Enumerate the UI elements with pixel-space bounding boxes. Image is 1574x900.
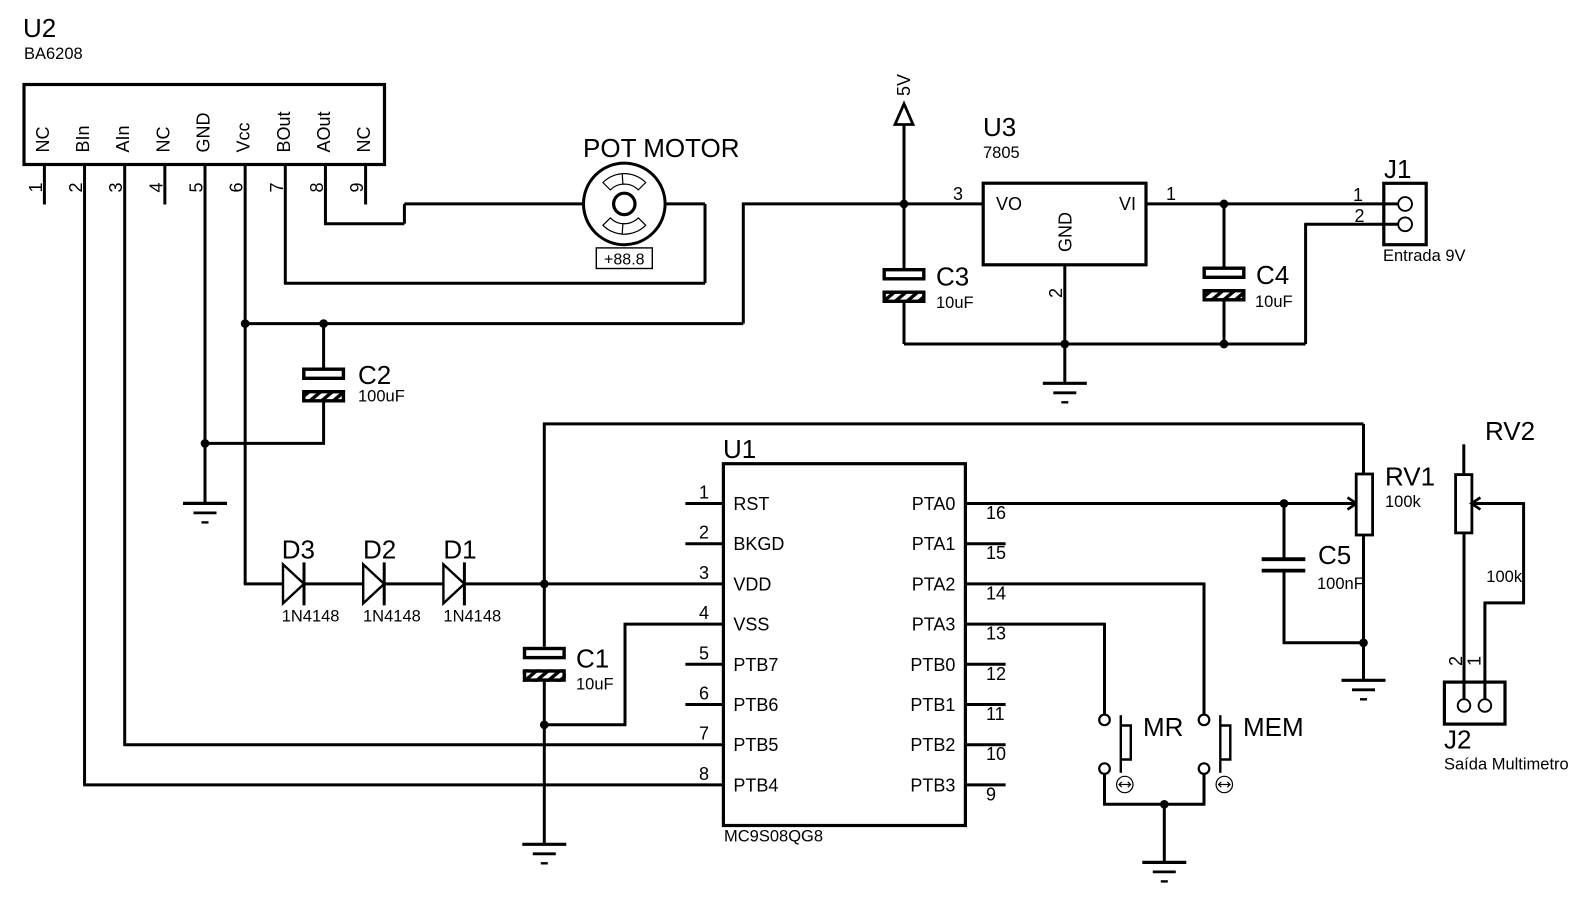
- svg-text:1N4148: 1N4148: [282, 608, 340, 626]
- svg-text:D1: D1: [443, 535, 476, 565]
- wire buttons common to ground: [1103, 804, 1205, 862]
- svg-text:J2: J2: [1444, 725, 1471, 755]
- diode D3: [283, 562, 304, 605]
- ground rail under U3: [904, 343, 1306, 346]
- svg-text:C5: C5: [1318, 540, 1351, 570]
- U1 left pin number 6: [699, 684, 709, 704]
- svg-text:VSS: VSS: [733, 615, 769, 635]
- svg-text:5: 5: [699, 643, 709, 663]
- U3 pin label VO: [996, 194, 1022, 214]
- IC U1 MC9S08QG8 body: [723, 464, 965, 826]
- svg-text:100uF: 100uF: [358, 388, 405, 406]
- motor display box +88.8: [596, 248, 652, 269]
- svg-text:1: 1: [1166, 184, 1176, 204]
- U1 left pin label PTB6: [733, 695, 778, 715]
- U1 right pin number 16: [986, 503, 1006, 523]
- diode D1: [443, 562, 464, 605]
- U2 pin number 8: [307, 182, 327, 192]
- svg-text:2: 2: [1354, 206, 1364, 226]
- wire U3 GND down: [1063, 265, 1066, 344]
- svg-text:1N4148: 1N4148: [443, 608, 501, 626]
- svg-text:Vcc: Vcc: [234, 122, 254, 152]
- node buttons ground junction: [1160, 800, 1169, 809]
- svg-text:VI: VI: [1119, 194, 1136, 214]
- svg-text:PTB7: PTB7: [733, 655, 778, 675]
- label BA6208: [24, 45, 83, 63]
- U2 pin label NC (pin 4): [153, 127, 173, 153]
- svg-text:PTB5: PTB5: [733, 735, 778, 755]
- svg-text:PTB4: PTB4: [733, 775, 778, 795]
- svg-text:10uF: 10uF: [936, 294, 974, 312]
- U1 right pin label PTA3: [912, 615, 956, 635]
- capacitor C2: [302, 369, 345, 402]
- label POT MOTOR: [583, 133, 740, 163]
- IC U2 BA6208 body: [24, 85, 385, 165]
- svg-text:+88.8: +88.8: [604, 252, 645, 269]
- U1 left pin label PTB7: [733, 655, 778, 675]
- power flag 5V: [894, 74, 914, 204]
- label 100uF: [358, 388, 405, 406]
- node C2 top junction: [319, 319, 328, 328]
- svg-text:PTA0: PTA0: [912, 494, 956, 514]
- label C3: [936, 262, 969, 292]
- node U3 GND junction: [1060, 340, 1069, 349]
- svg-text:MC9S08QG8: MC9S08QG8: [724, 828, 823, 846]
- wire VDD to C1: [543, 584, 546, 647]
- J1 pin 1 circle: [1398, 197, 1412, 211]
- U2 pin label NC (pin 9): [354, 127, 374, 153]
- label C1 10uF: [576, 676, 614, 694]
- U1 left pin number 2: [699, 523, 709, 543]
- label C5 100nF: [1317, 575, 1364, 593]
- U1 right pin label PTB3: [910, 775, 955, 795]
- svg-text:PTA1: PTA1: [912, 534, 956, 554]
- node Vcc/+5V rail junction: [241, 319, 250, 328]
- label D3 1N4148: [282, 608, 340, 626]
- svg-text:NC: NC: [354, 127, 374, 153]
- svg-text:Saída Multimetro: Saída Multimetro: [1444, 756, 1569, 774]
- U2 pin number 2: [66, 182, 86, 192]
- svg-text:6: 6: [699, 684, 709, 704]
- wire C2 bottom to GND node: [205, 403, 325, 444]
- label MC9S08QG8: [724, 828, 823, 846]
- U1 right pin label PTB2: [910, 735, 955, 755]
- svg-text:3: 3: [953, 184, 963, 204]
- svg-text:BKGD: BKGD: [733, 534, 784, 554]
- RV1 wiper arrow: [1348, 498, 1358, 510]
- svg-text:12: 12: [986, 664, 1006, 684]
- svg-text:16: 16: [986, 503, 1006, 523]
- J1 pin number 1: [1353, 185, 1363, 205]
- svg-text:MEM: MEM: [1243, 712, 1304, 742]
- wire C5 top: [1283, 504, 1286, 560]
- svg-text:VO: VO: [996, 194, 1022, 214]
- label Entrada 9V: [1383, 247, 1466, 265]
- motor top brush arc: [603, 174, 646, 190]
- svg-text:AIn: AIn: [113, 125, 133, 152]
- wire D3-D2: [304, 582, 363, 585]
- U1 right pin number 12: [986, 664, 1006, 684]
- regulator U3 body: [983, 183, 1146, 265]
- node C4 bottom junction: [1220, 340, 1229, 349]
- U2 pin label BIn (pin 2): [73, 125, 93, 152]
- svg-text:8: 8: [699, 764, 709, 784]
- label 7805: [983, 144, 1020, 162]
- label J2: [1444, 725, 1471, 755]
- U1 right pin number 10: [986, 744, 1006, 764]
- label C4 10uF: [1255, 293, 1293, 311]
- svg-text:7805: 7805: [983, 144, 1020, 162]
- label U1: [723, 434, 756, 464]
- U1 pin 10 stub: [965, 743, 1005, 746]
- U1 pin 12 stub: [965, 663, 1005, 666]
- U1 right pin label PTA1: [912, 534, 956, 554]
- svg-text:NC: NC: [33, 127, 53, 153]
- label C2: [358, 360, 391, 390]
- U1 left pin number 8: [699, 764, 709, 784]
- U1 right pin label PTA2: [912, 574, 956, 594]
- U1 right pin number 9: [986, 784, 996, 804]
- U2 pin number 6: [227, 182, 247, 192]
- U3 pin number 2: [1046, 288, 1066, 298]
- svg-text:BOut: BOut: [274, 111, 294, 152]
- U2 pin label BOut (pin 7): [274, 111, 294, 152]
- svg-text:15: 15: [986, 543, 1006, 563]
- U1 left pin number 1: [699, 483, 709, 503]
- svg-text:PTB0: PTB0: [910, 655, 955, 675]
- U1 left pin label VSS: [733, 615, 769, 635]
- svg-text:4: 4: [699, 603, 709, 623]
- svg-text:POT MOTOR: POT MOTOR: [583, 133, 740, 163]
- capacitor C4: [1203, 268, 1246, 301]
- wire C4 top: [1223, 204, 1226, 267]
- svg-text:1N4148: 1N4148: [363, 608, 421, 626]
- U1 right pin label PTA0: [912, 494, 956, 514]
- svg-text:PTA2: PTA2: [912, 574, 956, 594]
- RV2 top stub: [1462, 444, 1465, 474]
- svg-text:BA6208: BA6208: [24, 45, 83, 63]
- svg-text:10: 10: [986, 744, 1006, 764]
- svg-text:C2: C2: [358, 360, 391, 390]
- J2 pin 1 circle: [1479, 699, 1492, 712]
- svg-text:BIn: BIn: [73, 125, 93, 152]
- svg-text:C4: C4: [1256, 260, 1289, 290]
- label MR: [1143, 712, 1183, 742]
- U1 right pin label PTB1: [910, 695, 955, 715]
- motor shaft circle: [614, 193, 635, 214]
- label Saida Multimetro: [1444, 756, 1569, 774]
- node VI/C4 junction: [1220, 200, 1229, 209]
- motor bottom brush arc: [603, 218, 646, 234]
- U1 right pin number 15: [986, 543, 1006, 563]
- U2 pin label AIn (pin 3): [113, 125, 133, 152]
- wire U1 PTA2 to MEM: [965, 583, 1204, 715]
- U2 pin number 1: [26, 182, 46, 192]
- U1 pin 5 stub: [685, 663, 723, 666]
- capacitor C5: [1262, 559, 1306, 570]
- U1 right pin number 11: [986, 704, 1005, 724]
- wire U2 pin6 Vcc down to diodes: [244, 165, 247, 584]
- button MEM actuation indicator: [1216, 776, 1232, 792]
- wire U2 pin3 AIn to U1 PTB5: [123, 165, 723, 745]
- U1 right pin label PTB0: [910, 655, 955, 675]
- ground below buttons: [1142, 862, 1186, 881]
- svg-text:U2: U2: [23, 13, 56, 43]
- svg-text:PTB3: PTB3: [910, 775, 955, 795]
- wire MEM bottom terminal: [1203, 774, 1206, 804]
- svg-text:GND: GND: [194, 113, 214, 153]
- U1 left pin label PTB5: [733, 735, 778, 755]
- label RV1: [1385, 462, 1435, 492]
- U2 pin number 7: [267, 182, 287, 192]
- wire C3 bottom: [903, 303, 906, 344]
- svg-text:3: 3: [699, 563, 709, 583]
- wire U1 VSS loop: [544, 623, 723, 725]
- U2 pin label GND (pin 5): [194, 113, 214, 153]
- svg-text:U3: U3: [983, 112, 1016, 142]
- capacitor C1: [523, 649, 566, 682]
- svg-text:100nF: 100nF: [1317, 575, 1364, 593]
- J2 pin number 2: [1446, 656, 1466, 666]
- U1 left pin label RST: [733, 494, 769, 514]
- U1 right pin number 14: [986, 583, 1006, 603]
- wire C5 bottom: [1283, 571, 1364, 643]
- svg-text:2: 2: [1446, 656, 1466, 666]
- U2 pin number 5: [187, 182, 207, 192]
- wire MR bottom terminal: [1103, 774, 1106, 804]
- wire U2 pin7 BOut to motor right: [284, 165, 705, 284]
- svg-text:GND: GND: [1056, 212, 1076, 252]
- svg-text:MR: MR: [1143, 712, 1183, 742]
- node C1/VSS junction: [540, 720, 549, 729]
- svg-text:AOut: AOut: [314, 111, 334, 152]
- label U3: [983, 112, 1016, 142]
- U1 pin 15 stub: [965, 542, 1005, 545]
- svg-text:7: 7: [699, 724, 709, 744]
- label RV2: [1485, 416, 1535, 446]
- svg-text:1: 1: [1465, 656, 1485, 666]
- label C3 10uF: [936, 294, 974, 312]
- svg-text:C3: C3: [936, 262, 969, 292]
- svg-text:U1: U1: [723, 434, 756, 464]
- svg-text:PTB6: PTB6: [733, 695, 778, 715]
- push button MR actuator: [1121, 715, 1131, 773]
- button MR actuation indicator: [1117, 776, 1133, 792]
- node PTA0/C5 junction: [1280, 499, 1289, 508]
- J1 pin 2 circle: [1398, 217, 1412, 231]
- wire U1 PTA0 to RV1 wiper: [965, 502, 1348, 505]
- U3 pin label GND: [1056, 212, 1076, 252]
- U2 pin 1 NC stub: [43, 165, 46, 205]
- push button MEM actuator: [1220, 715, 1230, 773]
- svg-text:Entrada 9V: Entrada 9V: [1383, 247, 1466, 265]
- label D2: [363, 535, 396, 565]
- svg-text:10uF: 10uF: [576, 676, 614, 694]
- node VDD junction: [540, 580, 549, 589]
- svg-text:RV1: RV1: [1385, 462, 1435, 492]
- U2 pin number 3: [106, 182, 126, 192]
- U2 pin 4 NC stub: [163, 165, 166, 205]
- U1 pin 2 stub: [685, 542, 723, 545]
- wire U3 VI to J1: [1146, 202, 1399, 205]
- svg-text:PTB1: PTB1: [910, 695, 955, 715]
- ground below C1: [522, 844, 566, 863]
- potentiometer RV2 body: [1456, 475, 1472, 533]
- label C1: [576, 644, 609, 674]
- U2 pin label AOut (pin 8): [314, 111, 334, 152]
- wire RV2 bottom to J2 pin2: [1463, 533, 1466, 699]
- label D3: [282, 535, 315, 565]
- wire U2 pin5 GND down: [204, 165, 207, 504]
- U1 pin 6 stub: [685, 703, 723, 706]
- label J1: [1384, 154, 1411, 184]
- U1 pin 9 stub: [965, 783, 1005, 786]
- svg-text:10uF: 10uF: [1255, 293, 1293, 311]
- RV2 wiper arrow: [1471, 498, 1482, 510]
- svg-text:C1: C1: [576, 644, 609, 674]
- svg-text:2: 2: [1046, 288, 1066, 298]
- U1 left pin label VDD: [733, 574, 771, 594]
- svg-text:9: 9: [986, 784, 996, 804]
- U1 right pin number 13: [986, 624, 1006, 644]
- wire +5V rail to C2: [322, 324, 325, 368]
- svg-text:100k: 100k: [1385, 493, 1422, 511]
- J1 pin number 2: [1354, 206, 1364, 226]
- U2 pin number 9: [347, 182, 367, 192]
- wire U2 pin8 AOut to motor left: [324, 165, 583, 224]
- wire D2-D1: [384, 582, 443, 585]
- wire Vcc corner to D3: [244, 582, 283, 585]
- svg-text:14: 14: [986, 583, 1006, 603]
- wire RV1 bottom: [1362, 535, 1365, 643]
- U1 left pin label BKGD: [733, 534, 784, 554]
- label C5: [1318, 540, 1351, 570]
- U1 left pin number 4: [699, 603, 709, 623]
- wire C1 bottom to ground: [543, 682, 546, 845]
- potentiometer RV1 body: [1356, 474, 1372, 535]
- U1 left pin number 5: [699, 643, 709, 663]
- svg-text:PTA3: PTA3: [912, 615, 956, 635]
- wire U1 PTA3 to MR: [965, 623, 1104, 715]
- wire D1 to U1 VDD: [465, 582, 724, 585]
- U1 pin 11 stub: [965, 703, 1005, 706]
- U1 left pin number 7: [699, 724, 709, 744]
- label RV2 100k: [1486, 568, 1523, 586]
- U1 pin 1 stub: [685, 502, 723, 505]
- connector J1 body: [1384, 183, 1426, 244]
- svg-text:11: 11: [986, 704, 1005, 724]
- label U2: [23, 13, 56, 43]
- svg-text:5V: 5V: [894, 74, 914, 96]
- svg-text:RV2: RV2: [1485, 416, 1535, 446]
- capacitor C3: [883, 270, 926, 303]
- label D1 1N4148: [443, 608, 501, 626]
- ground below U3: [1043, 383, 1087, 402]
- ground below U2 GND: [183, 503, 227, 522]
- U3 pin number 3: [953, 184, 963, 204]
- svg-text:RST: RST: [733, 494, 769, 514]
- ground below RV1: [1342, 680, 1386, 699]
- push button MR terminal circles: [1099, 715, 1110, 774]
- svg-text:1: 1: [699, 483, 709, 503]
- wire RV1 bottom to ground: [1362, 643, 1365, 681]
- diode D2: [363, 562, 384, 605]
- connector J2 body: [1444, 682, 1505, 724]
- U1 left pin label PTB4: [733, 775, 778, 795]
- svg-text:1: 1: [1353, 185, 1363, 205]
- node GND/C2 junction: [201, 439, 210, 448]
- label D2 1N4148: [363, 608, 421, 626]
- wire C3 top: [903, 204, 906, 268]
- wire RV2 wiper to J2 pin1: [1481, 502, 1525, 699]
- U3 pin number 1: [1166, 184, 1176, 204]
- U1 left pin number 3: [699, 563, 709, 583]
- svg-text:100k: 100k: [1486, 568, 1523, 586]
- svg-text:PTB2: PTB2: [910, 735, 955, 755]
- wire J1 pin2 to ground rail: [1304, 224, 1398, 344]
- node RV1/C5 bottom junction: [1359, 638, 1368, 647]
- svg-text:2: 2: [699, 523, 709, 543]
- U2 pin label NC (pin 1): [33, 127, 53, 153]
- svg-text:NC: NC: [153, 127, 173, 153]
- svg-text:J1: J1: [1384, 154, 1411, 184]
- label MEM: [1243, 712, 1304, 742]
- wire U2 pin2 BIn to U1 PTB4: [83, 165, 723, 785]
- svg-text:13: 13: [986, 624, 1006, 644]
- U2 pin label Vcc (pin 6): [234, 122, 254, 152]
- node 5V/C3 junction: [900, 200, 909, 209]
- wire C4 bottom: [1223, 302, 1226, 345]
- label RV1 100k: [1385, 493, 1422, 511]
- push button MEM terminal circles: [1199, 715, 1210, 774]
- svg-text:VDD: VDD: [733, 574, 771, 594]
- svg-text:D3: D3: [282, 535, 315, 565]
- wire U3 GND junction to ground: [1063, 344, 1066, 383]
- motor body circle: [584, 163, 666, 245]
- J2 pin 2 circle: [1458, 699, 1471, 712]
- U2 pin 9 NC stub: [364, 165, 367, 205]
- U2 pin number 4: [146, 182, 166, 192]
- label D1: [443, 535, 476, 565]
- svg-text:D2: D2: [363, 535, 396, 565]
- label C4: [1256, 260, 1289, 290]
- wire VDD top rail: [543, 424, 1364, 584]
- U3 pin label VI: [1119, 194, 1136, 214]
- J2 pin number 1: [1465, 656, 1485, 666]
- wire +5V horizontal rail: [245, 204, 983, 324]
